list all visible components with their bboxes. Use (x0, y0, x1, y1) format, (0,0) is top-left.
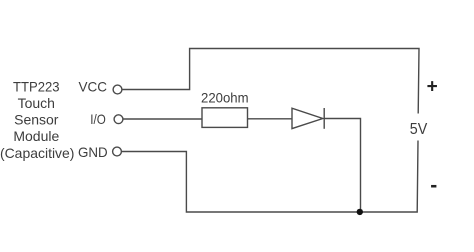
svg-text:GND: GND (78, 144, 108, 160)
svg-text:220ohm: 220ohm (201, 90, 249, 106)
svg-text:(Capacitive): (Capacitive) (0, 145, 74, 161)
svg-text:VCC: VCC (79, 79, 108, 95)
svg-text:-: - (430, 174, 437, 197)
svg-text:Touch: Touch (18, 95, 55, 111)
svg-text:TTP223: TTP223 (13, 78, 60, 94)
svg-text:Module: Module (13, 128, 59, 144)
svg-text:5V: 5V (410, 121, 428, 138)
svg-text:Sensor: Sensor (14, 112, 59, 128)
svg-text:+: + (427, 77, 438, 98)
svg-text:I/O: I/O (90, 111, 106, 127)
